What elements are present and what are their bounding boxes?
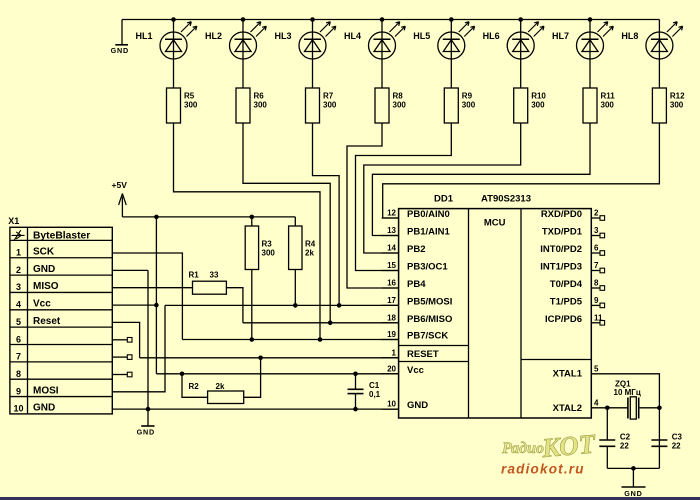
svg-text:R9: R9 bbox=[462, 92, 473, 101]
resistor R2 bbox=[189, 382, 244, 404]
wire net HL4/R8 to PB4 (pin16) bbox=[347, 123, 399, 288]
junction C1 bottom on GND rail bbox=[353, 407, 358, 412]
wire Reset net X1 to pin1 line bbox=[112, 322, 139, 357]
svg-text:300: 300 bbox=[393, 101, 407, 110]
svg-text:19: 19 bbox=[387, 330, 396, 339]
junction crystal right / XTAL1 drop bbox=[657, 406, 662, 411]
svg-text:PB0/AIN0: PB0/AIN0 bbox=[407, 209, 450, 220]
junction top rail node HL1 bbox=[171, 17, 176, 22]
resistor R12 bbox=[652, 88, 685, 123]
resistor R1 bbox=[189, 271, 227, 295]
wire net HL2/R6 to PB6 (pin18) bbox=[243, 123, 330, 323]
wire pin19 PB7/SCK line bbox=[182, 339, 398, 341]
wire R1 to pin18 line bbox=[226, 288, 243, 323]
pin 17 PB5/MOSI bbox=[382, 296, 453, 308]
svg-text:T0/PD4: T0/PD4 bbox=[550, 279, 583, 290]
svg-text:HL2: HL2 bbox=[205, 31, 222, 41]
pin 4 XTAL2 bbox=[553, 398, 599, 414]
svg-text:R8: R8 bbox=[393, 92, 404, 101]
resistor R4 bbox=[289, 217, 316, 270]
svg-text:8: 8 bbox=[16, 369, 21, 379]
svg-text:8: 8 bbox=[594, 279, 599, 288]
wire Vcc net X1 row4 to +5V drop bbox=[112, 304, 156, 306]
LED HL3 bbox=[274, 20, 335, 89]
pin 15 PB3/OC1 bbox=[382, 261, 449, 273]
svg-text:PB5/MOSI: PB5/MOSI bbox=[407, 296, 452, 307]
wire XTAL1 pin5 to C3 bbox=[591, 374, 659, 469]
capacitor C2 bbox=[599, 408, 630, 469]
svg-text:PB1/AIN1: PB1/AIN1 bbox=[407, 227, 450, 238]
pin X1 row8 stub bbox=[112, 372, 132, 377]
svg-text:10: 10 bbox=[387, 400, 396, 409]
svg-text:PB2: PB2 bbox=[407, 244, 425, 255]
svg-text:GND: GND bbox=[137, 427, 155, 436]
pin 16 PB4 bbox=[382, 279, 427, 291]
svg-text:XTAL1: XTAL1 bbox=[553, 368, 583, 379]
ground GND top-left bbox=[111, 20, 129, 55]
pin 8 T0/PD4 bbox=[550, 279, 605, 291]
svg-text:15: 15 bbox=[387, 261, 396, 270]
svg-text:ByteBlaster: ByteBlaster bbox=[33, 231, 90, 242]
svg-text:R4: R4 bbox=[305, 240, 316, 249]
resistor R7 bbox=[306, 88, 337, 123]
svg-text:300: 300 bbox=[601, 101, 615, 110]
svg-text:AT90S2313: AT90S2313 bbox=[481, 193, 531, 204]
svg-text:DD1: DD1 bbox=[434, 193, 454, 204]
svg-text:PB7/SCK: PB7/SCK bbox=[407, 331, 448, 342]
junction R5 on pin19 line bbox=[318, 337, 323, 342]
resistor R10 bbox=[514, 88, 547, 123]
svg-text:КОТ: КОТ bbox=[540, 428, 598, 463]
pin 19 PB7/SCK bbox=[382, 330, 449, 342]
junction R2 on RESET line bbox=[258, 356, 263, 361]
wire net HL6/R10 to PB2 (pin14) bbox=[364, 123, 521, 253]
svg-text:2k: 2k bbox=[305, 249, 314, 258]
svg-text:3: 3 bbox=[16, 282, 21, 292]
junction R7 on pin17 line bbox=[337, 303, 342, 308]
wire pin1 RESET line bbox=[140, 357, 399, 359]
svg-text:9: 9 bbox=[594, 296, 599, 305]
svg-text:HL1: HL1 bbox=[135, 31, 152, 41]
wire GND rail X1 row10 to pin10 bbox=[112, 408, 398, 410]
junction R2 on Vcc line bbox=[180, 372, 185, 377]
junction top rail node HL3 bbox=[310, 17, 315, 22]
svg-text:9: 9 bbox=[16, 386, 21, 396]
svg-text:PB6/MISO: PB6/MISO bbox=[407, 314, 452, 325]
svg-text:7: 7 bbox=[594, 261, 599, 270]
capacitor C3 bbox=[651, 433, 682, 451]
pin 14 PB2 bbox=[382, 244, 426, 256]
svg-text:ICP/PD6: ICP/PD6 bbox=[545, 314, 582, 325]
ground GND bottom-right bbox=[622, 468, 646, 497]
svg-text:HL6: HL6 bbox=[483, 31, 500, 41]
svg-text:C1: C1 bbox=[369, 381, 380, 390]
svg-text:3: 3 bbox=[594, 226, 599, 235]
svg-text:C2: C2 bbox=[620, 433, 631, 442]
pin X1 row6 stub bbox=[112, 338, 132, 343]
junction crystal GND node bbox=[631, 466, 636, 471]
svg-text:Reset: Reset bbox=[33, 316, 61, 327]
wire GND net X1 row2 down bbox=[112, 269, 148, 271]
svg-text:1: 1 bbox=[16, 248, 21, 258]
svg-text:300: 300 bbox=[184, 101, 198, 110]
svg-text:INT1/PD3: INT1/PD3 bbox=[540, 262, 582, 273]
wire XTAL2 pin4 to crystal bbox=[591, 407, 628, 409]
pin 3 TXD/PD1 bbox=[542, 226, 605, 238]
junction top rail node HL5 bbox=[449, 17, 454, 22]
svg-text:T1/PD5: T1/PD5 bbox=[550, 296, 583, 307]
junction R6 on pin18 line bbox=[328, 321, 333, 326]
svg-text:6: 6 bbox=[16, 334, 21, 344]
junction Vcc tap on +5V drop bbox=[154, 303, 159, 308]
svg-text:R10: R10 bbox=[531, 92, 546, 101]
wire MOSI net X1 to pin17 line bbox=[112, 305, 165, 391]
svg-text:MOSI: MOSI bbox=[33, 385, 59, 396]
svg-text:Радио: Радио bbox=[501, 440, 544, 457]
pin 13 PB1/AIN1 bbox=[382, 226, 451, 238]
svg-text:300: 300 bbox=[670, 101, 684, 110]
resistor R9 bbox=[444, 88, 475, 123]
LED HL2 bbox=[205, 20, 266, 89]
svg-text:R6: R6 bbox=[254, 92, 265, 101]
svg-text:4: 4 bbox=[594, 398, 599, 407]
svg-text:6: 6 bbox=[594, 244, 599, 253]
pin 7 INT1/PD3 bbox=[540, 261, 604, 273]
resistor R5 bbox=[167, 88, 198, 123]
svg-text:5: 5 bbox=[16, 317, 21, 327]
pin 6 INT0/PD2 bbox=[540, 244, 604, 256]
wire net HL1/R5 to PB7 (pin19) with SCK bbox=[174, 123, 321, 340]
resistor R11 bbox=[583, 88, 615, 123]
svg-text:18: 18 bbox=[387, 313, 396, 322]
svg-text:5: 5 bbox=[594, 364, 599, 373]
resistor R6 bbox=[236, 88, 267, 123]
svg-text:300: 300 bbox=[254, 101, 268, 110]
junction GND drop on GND rail bbox=[146, 407, 151, 412]
svg-text:10: 10 bbox=[13, 404, 23, 414]
wire R2 right lead to RESET line bbox=[244, 358, 261, 398]
wire net HL8/R12 to PB0 (pin12) bbox=[383, 123, 660, 218]
wire +5V rail bbox=[122, 216, 295, 218]
svg-text:300: 300 bbox=[262, 249, 276, 258]
resistor R8 bbox=[375, 88, 406, 123]
svg-text:22: 22 bbox=[672, 442, 681, 451]
svg-text:INT0/PD2: INT0/PD2 bbox=[540, 244, 582, 255]
svg-text:R3: R3 bbox=[262, 240, 273, 249]
svg-text:RESET: RESET bbox=[407, 349, 439, 360]
IC DD1 AT90S2313 MCU box bbox=[399, 193, 592, 418]
svg-text:X1: X1 bbox=[8, 216, 19, 226]
svg-text:GND: GND bbox=[33, 403, 55, 414]
junction top rail node HL4 bbox=[380, 17, 385, 22]
svg-text:20: 20 bbox=[387, 364, 396, 373]
svg-text:R1: R1 bbox=[189, 271, 200, 280]
junction top rail node HL6 bbox=[518, 17, 523, 22]
pin 5 XTAL1 bbox=[553, 364, 599, 379]
power +5V bbox=[112, 180, 128, 217]
wire R2 left lead to Vcc line bbox=[182, 374, 208, 398]
svg-text:HL3: HL3 bbox=[274, 31, 291, 41]
pin 18 PB6/MISO bbox=[382, 313, 453, 325]
wire R4 to pin17 line bbox=[294, 270, 296, 306]
svg-text:RXD/PD0: RXD/PD0 bbox=[541, 209, 582, 220]
svg-text:10 МГц: 10 МГц bbox=[614, 388, 641, 397]
svg-text:MCU: MCU bbox=[484, 218, 506, 229]
wire MISO net X1 to R1 bbox=[112, 287, 192, 289]
svg-text:2: 2 bbox=[594, 209, 599, 218]
svg-text:HL8: HL8 bbox=[621, 31, 638, 41]
svg-text:HL7: HL7 bbox=[552, 31, 569, 41]
connector X1 ByteBlaster bbox=[8, 216, 112, 414]
wire SCK net X1 to pin19 line bbox=[112, 253, 182, 340]
LED HL5 bbox=[413, 20, 474, 89]
wire R3 to SCK/pin19 line bbox=[251, 270, 253, 340]
svg-text:GND: GND bbox=[407, 400, 428, 411]
LED HL6 bbox=[483, 20, 544, 89]
svg-text:PB4: PB4 bbox=[407, 279, 426, 290]
svg-text:XTAL2: XTAL2 bbox=[553, 403, 582, 414]
watermark Radio KOT logo bbox=[501, 428, 598, 463]
wire +5V drop to Vcc line bbox=[155, 217, 157, 374]
svg-text:300: 300 bbox=[323, 101, 337, 110]
svg-text:TXD/PD1: TXD/PD1 bbox=[542, 227, 583, 238]
pin 2 RXD/PD0 bbox=[541, 209, 605, 221]
page bottom blue border bbox=[0, 497, 700, 500]
pin 1 RESET bbox=[382, 348, 439, 360]
svg-text:300: 300 bbox=[531, 101, 545, 110]
svg-text:Vcc: Vcc bbox=[407, 365, 424, 376]
wire crystal ground rail bbox=[607, 467, 659, 469]
svg-text:MISO: MISO bbox=[33, 281, 59, 292]
svg-text:PB3/OC1: PB3/OC1 bbox=[407, 262, 448, 273]
svg-text:33: 33 bbox=[210, 271, 219, 280]
svg-text:SCK: SCK bbox=[33, 247, 55, 258]
LED HL1 bbox=[135, 20, 196, 89]
pin 12 PB0/AIN0 bbox=[382, 209, 450, 221]
svg-text:HL5: HL5 bbox=[413, 31, 430, 41]
junction C2 tap bbox=[605, 406, 610, 411]
wire net HL7/R11 to PB1 (pin13) bbox=[372, 123, 590, 236]
junction +5V to Vcc drop bbox=[154, 215, 159, 220]
svg-text:GND: GND bbox=[624, 489, 642, 498]
LED HL4 bbox=[344, 20, 405, 89]
svg-text:1: 1 bbox=[392, 348, 397, 357]
junction R4 on pin17 line bbox=[293, 303, 298, 308]
svg-text:R5: R5 bbox=[184, 92, 195, 101]
capacitor C1 bbox=[348, 374, 381, 409]
ground GND bottom-left bbox=[137, 426, 155, 436]
resistor R3 bbox=[245, 217, 275, 270]
svg-text:17: 17 bbox=[387, 296, 396, 305]
svg-text:C3: C3 bbox=[672, 433, 683, 442]
svg-text:22: 22 bbox=[620, 442, 629, 451]
wire pin17 PB5/MOSI line bbox=[165, 304, 399, 306]
svg-text:R12: R12 bbox=[670, 92, 685, 101]
wire pin18 PB6/MISO line bbox=[243, 322, 399, 324]
pin 10 GND bbox=[382, 400, 429, 412]
svg-text:12: 12 bbox=[387, 209, 396, 218]
wire pin20 Vcc line bbox=[156, 373, 398, 375]
pin 20 Vcc bbox=[382, 364, 424, 376]
svg-text:GND: GND bbox=[111, 46, 129, 55]
svg-text:R7: R7 bbox=[323, 92, 334, 101]
svg-text:R2: R2 bbox=[189, 382, 200, 391]
svg-text:13: 13 bbox=[387, 226, 396, 235]
junction +5V to R3 bbox=[250, 215, 255, 220]
svg-text:Vcc: Vcc bbox=[33, 299, 51, 310]
svg-text:radiokot.ru: radiokot.ru bbox=[501, 462, 585, 477]
pin X1 row7 stub bbox=[112, 355, 132, 360]
svg-text:16: 16 bbox=[387, 279, 396, 288]
crystal ZQ1 10 MHz bbox=[614, 379, 660, 419]
svg-text:+5V: +5V bbox=[112, 180, 128, 190]
junction R3 on pin19 line bbox=[250, 337, 255, 342]
svg-text:14: 14 bbox=[387, 244, 396, 253]
svg-text:300: 300 bbox=[462, 101, 476, 110]
LED HL8 bbox=[621, 20, 682, 89]
wire net HL5/R9 to PB3 (pin15) bbox=[356, 123, 452, 271]
wire top GND rail bbox=[122, 19, 659, 21]
pin 11 ICP/PD6 bbox=[545, 313, 605, 325]
svg-text:11: 11 bbox=[594, 313, 603, 322]
junction top rail node HL7 bbox=[588, 17, 593, 22]
svg-text:R11: R11 bbox=[601, 92, 616, 101]
svg-text:2k: 2k bbox=[216, 382, 225, 391]
junction top rail node HL2 bbox=[241, 17, 246, 22]
LED HL7 bbox=[552, 20, 613, 89]
svg-text:0,1: 0,1 bbox=[369, 390, 381, 399]
svg-text:4: 4 bbox=[16, 300, 21, 310]
svg-text:7: 7 bbox=[16, 352, 21, 362]
svg-text:GND: GND bbox=[33, 264, 55, 275]
pin 9 T1/PD5 bbox=[550, 296, 605, 308]
svg-text:2: 2 bbox=[16, 265, 21, 275]
junction C1 top on Vcc line bbox=[353, 372, 358, 377]
svg-text:HL4: HL4 bbox=[344, 31, 361, 41]
wire net HL3/R7 to PB5 (pin17) bbox=[313, 123, 340, 305]
